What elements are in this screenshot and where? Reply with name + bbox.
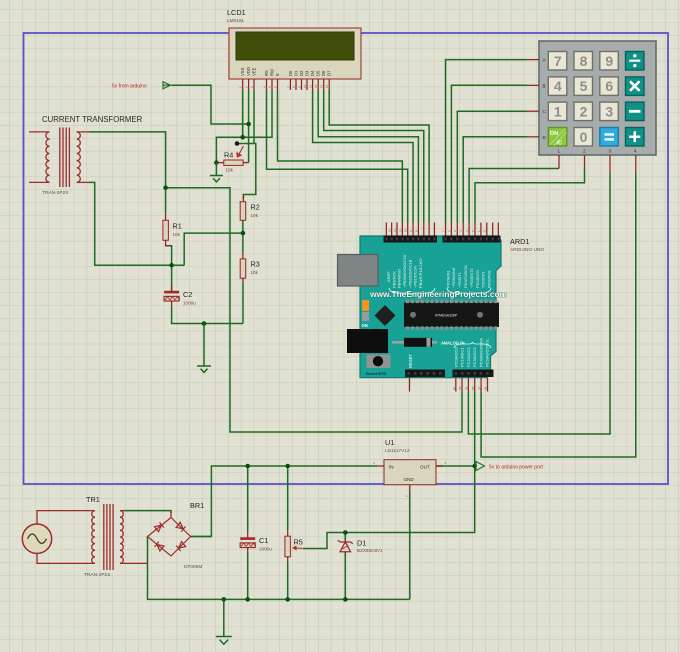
wire R1 bottom dogleg <box>166 246 172 291</box>
wire keypad col2 to arduino <box>475 169 585 223</box>
junction node R5 bottom <box>285 597 290 602</box>
svg-text:RS: RS <box>264 70 269 76</box>
wire R5 top riser <box>287 466 289 530</box>
svg-text:TRAN-2P2S: TRAN-2P2S <box>84 572 110 578</box>
bottom pin labels analog <box>453 338 489 367</box>
bottom pin header left <box>405 370 445 378</box>
AC source <box>22 524 51 553</box>
svg-text:10: 10 <box>404 228 408 232</box>
junction node gnd mid <box>202 321 207 326</box>
svg-text:D6: D6 <box>321 70 326 76</box>
junction node D1 bottom <box>343 597 348 602</box>
svg-text:~PD6/AIN0: ~PD6/AIN0 <box>451 267 456 288</box>
svg-text:13: 13 <box>320 84 324 88</box>
junction node C1 bottom <box>245 597 250 602</box>
svg-text:10k: 10k <box>226 168 234 173</box>
svg-text:9: 9 <box>605 53 613 69</box>
svg-text:10k: 10k <box>173 232 181 237</box>
svg-text:R3: R3 <box>251 260 260 269</box>
svg-text:PB4/MISO: PB4/MISO <box>397 269 402 288</box>
svg-text:0: 0 <box>580 129 588 145</box>
top pin numbers <box>388 228 487 232</box>
svg-text:TXD/PD1: TXD/PD1 <box>481 270 486 288</box>
wire node R1-top to ground rail riser <box>166 188 462 432</box>
svg-text:E: E <box>275 73 280 76</box>
svg-text:PC5/ADC5/SCL: PC5/ADC5/SCL <box>485 338 490 367</box>
resistor R3 <box>240 252 260 283</box>
svg-text:~PB3/MOSI/OC2A: ~PB3/MOSI/OC2A <box>402 254 407 288</box>
keypad <box>527 41 657 173</box>
svg-text:5v from arduino: 5v from arduino <box>112 84 147 90</box>
wire LCD E to arduino <box>278 90 403 223</box>
svg-text:LCD1: LCD1 <box>227 8 246 17</box>
capacitor C1 <box>240 531 272 553</box>
svg-text:ATMEGA328P: ATMEGA328P <box>435 313 458 317</box>
svg-text:25: 25 <box>465 386 469 390</box>
svg-text:TR1: TR1 <box>86 495 100 504</box>
svg-text:PD2/INT0: PD2/INT0 <box>475 270 480 288</box>
wire LCD D7 to arduino <box>329 90 429 223</box>
svg-text:~PB2/SS/OC1B: ~PB2/SS/OC1B <box>407 259 412 288</box>
wire bottom ground rail <box>148 537 410 600</box>
svg-text:R2: R2 <box>251 203 260 212</box>
svg-text:PD4/T0/XCK: PD4/T0/XCK <box>463 265 468 288</box>
junction node C1 top <box>245 464 250 469</box>
svg-text:A: A <box>543 58 546 63</box>
silk brace right <box>447 288 491 295</box>
wire CT secondary bottom to sense node <box>89 182 184 265</box>
wire D1 top stub <box>344 533 346 543</box>
svg-text:5: 5 <box>580 78 588 94</box>
wire LCD D6 to arduino <box>324 90 424 223</box>
wire R5 wiper to D1 top <box>303 533 345 549</box>
svg-text:5v to arduino power port: 5v to arduino power port <box>489 465 544 471</box>
wire CT secondary top to R1 top node <box>89 132 166 212</box>
ground symbol at R4 <box>210 163 223 182</box>
svg-text:Reset BTN: Reset BTN <box>366 371 386 376</box>
junction node gnd bottom <box>222 597 227 602</box>
svg-text:24: 24 <box>458 386 462 390</box>
wire keypad col4 to arduino A3 <box>481 173 636 457</box>
svg-text:7: 7 <box>554 53 562 69</box>
svg-text:PD7/AIN1: PD7/AIN1 <box>445 269 450 288</box>
arduino ARD1 <box>338 223 545 392</box>
zener diode D1 <box>338 539 383 554</box>
wire keypad row C to arduino <box>457 111 526 222</box>
svg-text:10k: 10k <box>251 270 259 275</box>
svg-text:TRAN-2P2S: TRAN-2P2S <box>42 190 68 196</box>
svg-text:R4: R4 <box>224 151 233 160</box>
svg-text:4: 4 <box>554 78 562 94</box>
bottom pin stubs <box>410 378 488 392</box>
wire LCD D4 to arduino <box>313 90 413 223</box>
svg-text:8: 8 <box>580 53 588 69</box>
svg-text:~PD5/T1: ~PD5/T1 <box>457 271 462 288</box>
capacitor C2 <box>164 285 196 307</box>
svg-text:11: 11 <box>398 229 402 232</box>
svg-text:D3: D3 <box>305 70 310 76</box>
svg-text:ON: ON <box>362 323 368 328</box>
svg-text:AREF: AREF <box>386 271 391 282</box>
svg-text:PC4/ADC4/SDA: PC4/ADC4/SDA <box>478 338 483 367</box>
svg-text:ARD1: ARD1 <box>510 237 529 246</box>
wire keypad col3 to arduino A1 <box>468 173 610 434</box>
resistor R2 <box>240 195 260 221</box>
svg-text:C: C <box>543 109 546 114</box>
svg-text:~PB1/OC1A: ~PB1/OC1A <box>413 266 418 288</box>
svg-text:D: D <box>543 135 546 140</box>
svg-text:D1: D1 <box>357 539 366 548</box>
svg-text:ARDUINO UNO: ARDUINO UNO <box>510 247 544 253</box>
silk brace left <box>389 288 435 295</box>
top pin labels <box>386 254 492 288</box>
svg-text:RESET: RESET <box>408 354 413 368</box>
junction node R2/R3 mid <box>241 231 246 236</box>
wire R3 bottom riser <box>242 283 244 324</box>
ground symbol mid <box>197 324 211 373</box>
svg-text:OUT: OUT <box>420 465 430 470</box>
wire sense riser to R2/R3 mid <box>184 233 243 265</box>
bottom pin numbers <box>452 386 488 390</box>
svg-text:12: 12 <box>314 84 318 88</box>
svg-text:CURRENT TRANSFORMER: CURRENT TRANSFORMER <box>42 115 143 124</box>
junction node VDD/5v <box>246 122 251 127</box>
wire keypad col1 to arduino <box>469 169 559 223</box>
svg-text:D1: D1 <box>294 70 299 76</box>
svg-text:VSS: VSS <box>240 67 245 76</box>
wire LCD RS to arduino <box>267 90 408 223</box>
wire R5 bottom <box>287 562 289 599</box>
potentiometer R4 <box>216 146 248 173</box>
wire LCD D5 to arduino <box>318 90 418 223</box>
svg-text:VDD: VDD <box>246 67 251 76</box>
potentiometer R5 <box>285 530 303 562</box>
led orange <box>362 300 369 311</box>
svg-text:C2: C2 <box>183 290 192 299</box>
svg-text:11: 11 <box>309 85 313 88</box>
svg-text:27: 27 <box>477 386 481 390</box>
svg-text:B: B <box>543 83 546 88</box>
usb connector <box>338 255 379 287</box>
svg-text:LD1117V12: LD1117V12 <box>385 448 410 454</box>
svg-text:3: 3 <box>605 103 613 119</box>
bridge rectifier BR1 <box>148 501 205 570</box>
top pin header right <box>443 236 501 243</box>
svg-text:1000u: 1000u <box>183 301 196 306</box>
wire R4 wiper to R2 top <box>237 144 256 200</box>
wire C1 top riser <box>247 466 249 531</box>
LCD LCD1 <box>227 8 361 90</box>
svg-text:D7: D7 <box>327 70 332 76</box>
wire TR1 secondary top to bridge <box>124 511 171 513</box>
current transformer CT <box>29 115 143 196</box>
wire U1 OUT to arrow <box>436 465 476 467</box>
wire R2 bottom to R3 top <box>242 220 244 252</box>
junction node R4 wiper <box>235 141 240 146</box>
ground symbol bottom <box>216 599 232 644</box>
svg-text:6: 6 <box>605 78 613 94</box>
wire LCD VEE down to wiper net <box>253 90 255 144</box>
svg-text:R1: R1 <box>173 222 182 231</box>
regulator U1 <box>373 438 447 498</box>
junction node R5 top <box>285 464 290 469</box>
wire U1 GND down <box>409 492 411 599</box>
silk brace bottom <box>454 342 491 348</box>
svg-text:RXD/PD0: RXD/PD0 <box>487 270 492 288</box>
junction node sense <box>169 263 174 268</box>
wire C1 bottom <box>247 553 249 599</box>
svg-text:1: 1 <box>554 103 562 119</box>
svg-text:13: 13 <box>388 228 392 232</box>
svg-text:PC1/ADC1: PC1/ADC1 <box>460 347 465 367</box>
wire LCD VDD down to R4 right <box>248 90 250 163</box>
power jack <box>347 329 388 353</box>
svg-text:10: 10 <box>303 84 307 88</box>
wire keypad row D to arduino <box>463 137 526 223</box>
transformer TR1 <box>37 495 171 578</box>
svg-text:ON: ON <box>550 131 558 137</box>
svg-text:PC3/ADC3: PC3/ADC3 <box>472 347 477 367</box>
reset button <box>367 355 391 369</box>
resistor R1 <box>163 212 182 246</box>
top pin stubs <box>386 223 498 236</box>
svg-text:BR1: BR1 <box>190 501 204 510</box>
svg-text:PC0/ADC0: PC0/ADC0 <box>453 347 458 367</box>
wire keypad row B to arduino <box>451 85 526 222</box>
svg-text:LM016L: LM016L <box>227 18 245 24</box>
wire LCD VSS down <box>242 90 244 137</box>
atmega chip <box>404 300 499 330</box>
junction node R1 top <box>163 185 168 190</box>
wire VSS/RW/R4-left net <box>216 90 272 163</box>
junction node VSS/RW <box>240 135 245 140</box>
svg-text:14: 14 <box>325 84 329 88</box>
svg-text:D5: D5 <box>316 70 321 76</box>
svg-text:D4: D4 <box>310 70 315 76</box>
wire U1 IN rail from bridge <box>191 466 378 537</box>
wire arduino 5V pin down to D1 top rail <box>345 392 474 533</box>
bottom pin header right <box>453 370 494 378</box>
wire BR1 out to IN rail <box>191 536 212 538</box>
svg-text:/C: /C <box>557 141 563 147</box>
power arrow 5v from arduino <box>163 82 172 89</box>
svg-text:26: 26 <box>471 386 475 390</box>
top pin header left <box>384 236 438 243</box>
svg-text:PB5/SCK: PB5/SCK <box>391 271 396 288</box>
svg-text:D2: D2 <box>299 70 304 76</box>
wire C2 bottom to ground bar <box>172 307 243 324</box>
svg-text:PC2/ADC2: PC2/ADC2 <box>466 347 471 367</box>
inductor component <box>392 341 437 344</box>
svg-text:R5: R5 <box>294 538 303 547</box>
wire D1 bottom to rail <box>344 552 346 600</box>
svg-text:GND: GND <box>404 477 415 482</box>
svg-text:DF005M: DF005M <box>184 564 202 570</box>
junction node D1 top <box>343 530 348 535</box>
junction node 5v out <box>472 464 477 469</box>
svg-text:ANALOG IN: ANALOG IN <box>441 341 465 346</box>
svg-text:2: 2 <box>580 103 588 119</box>
svg-text:10k: 10k <box>251 213 259 218</box>
power arrow 5v to arduino <box>476 462 485 471</box>
wire 5v-from-arduino to VDD <box>172 85 249 124</box>
svg-text:C1: C1 <box>259 536 268 545</box>
svg-text:U1: U1 <box>385 438 394 447</box>
svg-text:IN: IN <box>389 465 394 470</box>
svg-text:BZX85C8V1: BZX85C8V1 <box>357 548 383 553</box>
wire keypad row A to arduino <box>446 60 527 223</box>
svg-text:PB0/ICP1/CLKO: PB0/ICP1/CLKO <box>418 258 423 288</box>
svg-text:1000u: 1000u <box>259 547 272 552</box>
svg-text:D0: D0 <box>288 70 293 76</box>
svg-text:VEE: VEE <box>252 67 257 76</box>
svg-text:RW: RW <box>270 69 275 76</box>
svg-text:28: 28 <box>484 386 488 390</box>
junction node R4 left <box>214 160 219 165</box>
svg-text:23: 23 <box>452 386 456 390</box>
svg-text:12: 12 <box>393 228 397 232</box>
black diamond <box>375 305 396 326</box>
svg-text:~PD3/INT1: ~PD3/INT1 <box>469 267 474 288</box>
